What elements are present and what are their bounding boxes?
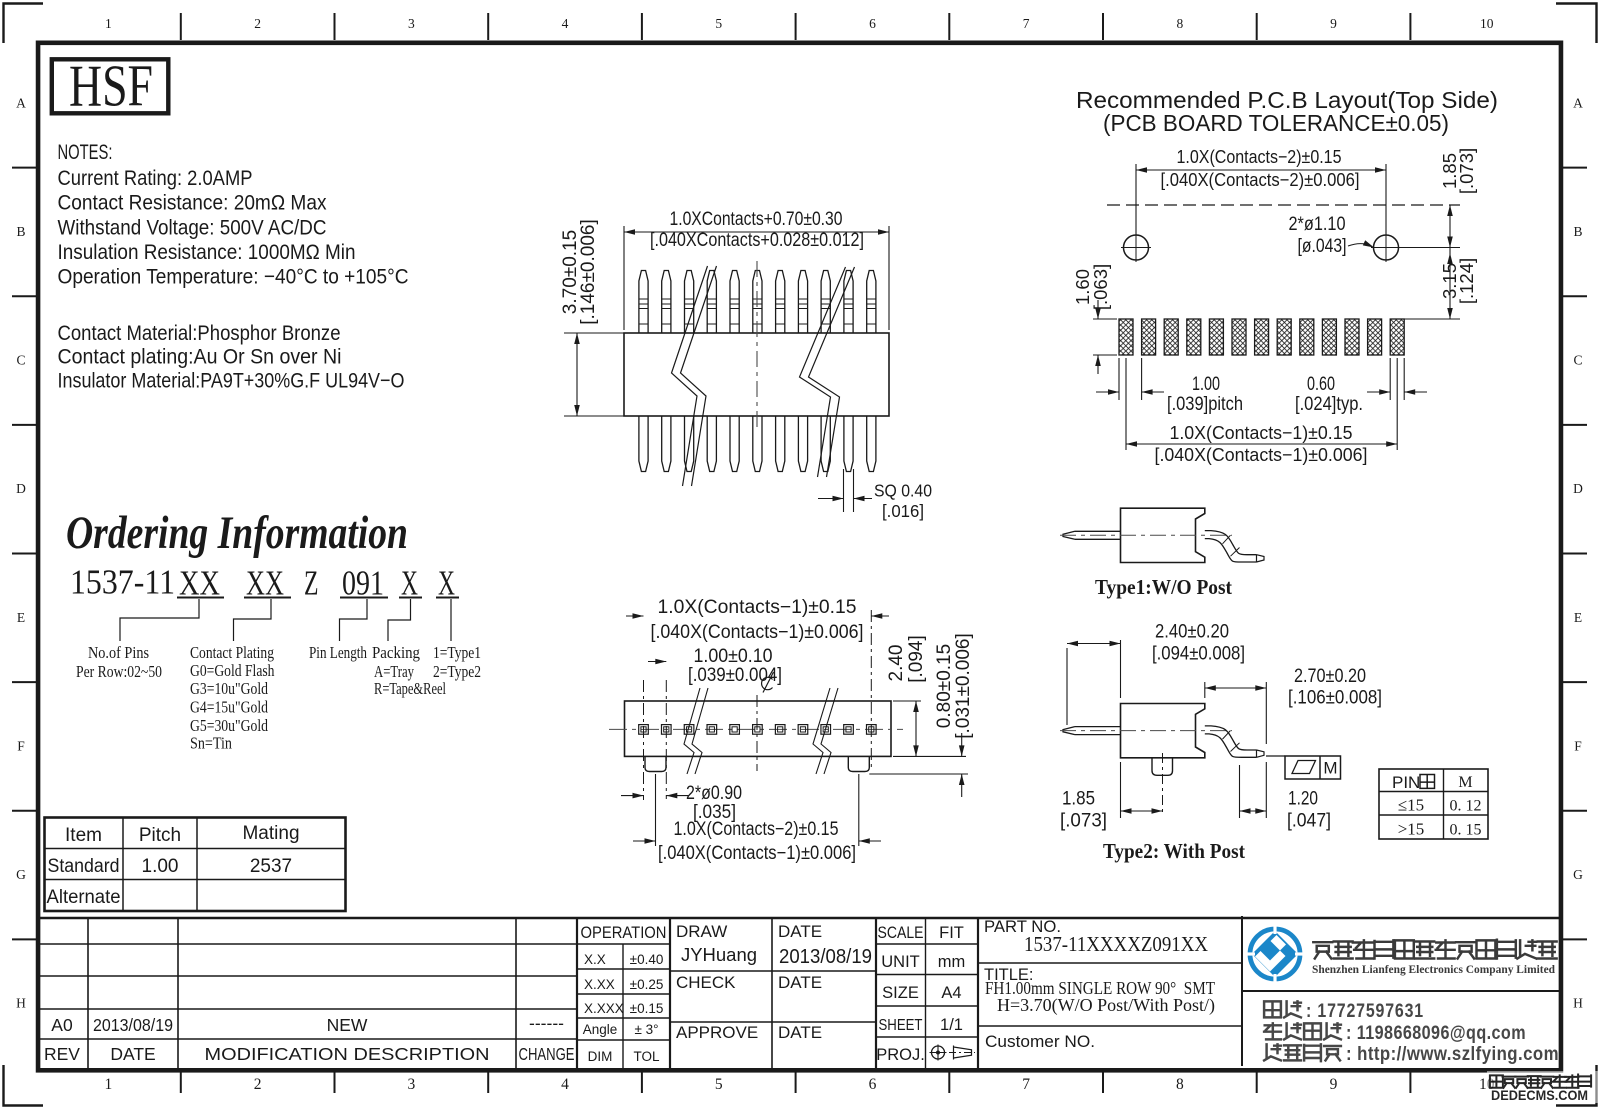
svg-text:>15: >15 [1398,820,1425,839]
svg-text:------: ------ [529,1013,564,1033]
svg-text:[.094±0.008]: [.094±0.008] [1152,644,1245,665]
svg-text:C: C [16,353,25,368]
contact: website [1264,1044,1281,1060]
svg-text:A: A [16,95,26,110]
svg-text:B: B [1573,224,1582,239]
svg-text:R=Tape&Reel: R=Tape&Reel [374,679,446,698]
svg-text:6: 6 [869,1076,877,1093]
svg-text:Standard: Standard [48,856,120,877]
svg-text:PIN: PIN [1392,773,1420,792]
svg-text:DATE: DATE [778,922,822,941]
bottom view: pad squares x11 [639,725,649,735]
svg-text:DATE: DATE [110,1044,155,1064]
svg-text:1537-11XXXXZ091XX: 1537-11XXXXZ091XX [1024,932,1208,956]
contact: email [1264,1023,1281,1039]
svg-text:G3=10u"Gold: G3=10u"Gold [190,679,269,698]
svg-text:DATE: DATE [778,973,822,992]
svg-text:REV: REV [44,1044,80,1064]
svg-text:8: 8 [1176,1076,1184,1093]
svg-text:2013/08/19: 2013/08/19 [93,1015,173,1035]
front view: top pins x11 [639,271,648,334]
svg-text:[.040X(Contacts−1)±0.006]: [.040X(Contacts−1)±0.006] [658,843,856,864]
svg-text:: 17727597631: : 17727597631 [1306,1001,1424,1022]
svg-text:DIM: DIM [588,1049,613,1064]
svg-text:1.85: 1.85 [1062,789,1095,810]
svg-text:[.073]: [.073] [1456,148,1477,194]
svg-text:M: M [1323,759,1337,778]
svg-text:1=Type1: 1=Type1 [433,643,481,662]
front view: connector body [624,333,889,416]
dim: pad height 1.60 [1093,318,1117,320]
pcb layout: dashed centerline [1107,204,1460,206]
svg-text:[.040XContacts+0.028±0.012]: [.040XContacts+0.028±0.012] [650,230,864,251]
svg-text:MODIFICATION DESCRIPTION: MODIFICATION DESCRIPTION [205,1044,490,1064]
svg-text:OPERATION: OPERATION [581,923,667,942]
svg-text:1.0XContacts+0.70±0.30: 1.0XContacts+0.70±0.30 [670,209,843,230]
svg-text:2.40±0.20: 2.40±0.20 [1155,622,1229,643]
svg-text:±0.15: ±0.15 [630,1001,664,1016]
svg-text:2*ø1.10: 2*ø1.10 [1289,214,1346,235]
svg-text:Contact Material:Phosphor Bron: Contact Material:Phosphor Bronze [58,321,341,345]
company logo: blue ring and diamond [1250,929,1300,979]
svg-text:SIZE: SIZE [882,984,919,1002]
svg-text:NEW: NEW [327,1015,368,1035]
pcb layout: mounting hole right [1374,235,1399,260]
pcb layout: pads row x13 crosshatched [1119,319,1133,355]
svg-text:: http://www.szlfying.com: : http://www.szlfying.com [1346,1044,1559,1065]
bottom view: reference dash-dot verticals [643,680,645,800]
svg-text:[.073]: [.073] [1060,811,1107,832]
bottom view: centerline symbol [763,672,774,693]
svg-text:0.80±0.15: 0.80±0.15 [934,644,955,728]
svg-text:mm: mm [938,953,966,971]
svg-text:2013/08/19: 2013/08/19 [779,946,872,968]
svg-text:(PCB BOARD TOLERANCE±0.05): (PCB BOARD TOLERANCE±0.05) [1103,110,1449,136]
front view: bottom pins x11 [639,416,648,472]
svg-text:±0.25: ±0.25 [630,977,664,992]
svg-text:NOTES:: NOTES: [58,140,113,164]
svg-text:7: 7 [1022,1076,1030,1093]
svg-text:4: 4 [562,16,569,31]
svg-text:Shenzhen Lianfeng Electronics: Shenzhen Lianfeng Electronics Company Li… [1312,964,1556,976]
svg-text:[.146±0.006]: [.146±0.006] [578,219,599,325]
svg-text:[.031±0.006]: [.031±0.006] [953,633,974,739]
svg-text:10: 10 [1480,16,1494,31]
dim: 1.20 foot length [1239,765,1241,818]
company chinese name [1313,942,1332,958]
svg-text:0. 12: 0. 12 [1450,798,1482,815]
svg-text:No.of Pins: No.of Pins [88,643,149,662]
svg-text:3: 3 [408,16,415,31]
svg-text:2=Type2: 2=Type2 [433,662,481,681]
svg-text:1.0X(Contacts−2)±0.15: 1.0X(Contacts−2)±0.15 [674,819,839,840]
svg-text:Pitch: Pitch [139,825,181,846]
dim: pitch 1.00 [1118,358,1120,400]
svg-text:1.0X(Contacts−2)±0.15: 1.0X(Contacts−2)±0.15 [1177,146,1342,167]
ruler ticks and zone letters left/right edges [12,167,37,169]
svg-text:B: B [16,224,25,239]
svg-text:1: 1 [105,1076,113,1093]
svg-text:1537-11: 1537-11 [70,563,175,602]
underlines under code fields [177,597,224,599]
dim: top 1.0X(Contacts-1) span [626,615,644,617]
bottom view: horizontal centerline [609,728,903,730]
svg-text:APPROVE: APPROVE [676,1023,758,1042]
svg-text:8: 8 [1176,16,1183,31]
svg-text:9: 9 [1330,1076,1338,1093]
svg-text:1.00±0.10: 1.00±0.10 [694,646,773,667]
svg-text:Mating: Mating [242,823,299,844]
bottom view: posts [645,756,666,771]
svg-text:G4=15u"Gold: G4=15u"Gold [190,698,269,717]
type2 header side view (with post) [1060,704,1264,758]
svg-text:Customer NO.: Customer NO. [985,1032,1095,1051]
svg-text:[.106±0.008]: [.106±0.008] [1288,688,1382,709]
svg-text:[.016]: [.016] [882,501,924,521]
dim: hole span 1.0X(Contacts-2) [1135,164,1137,235]
svg-text:[.124]: [.124] [1456,258,1477,304]
svg-text:: 1198668096@qq.com: : 1198668096@qq.com [1346,1023,1526,1044]
ruler ticks and zone numbers top edge [180,13,182,40]
svg-text:A0: A0 [51,1015,73,1035]
sheet corner trim marks [4,4,44,44]
svg-text:F: F [17,738,25,753]
svg-text:4: 4 [561,1076,569,1093]
svg-text:1: 1 [105,16,112,31]
dim: SQ 0.40 pin size [843,469,845,512]
svg-text:1/1: 1/1 [940,1016,963,1034]
HSF company logo box [52,59,169,113]
front view: break lines left [672,266,708,486]
dedecms watermark [1487,1071,1600,1103]
svg-text:Contact Plating: Contact Plating [190,643,274,662]
svg-text:Contact Resistance: 20mΩ Max: Contact Resistance: 20mΩ Max [58,191,327,215]
svg-text:Ordering Information: Ordering Information [66,507,408,559]
svg-text:1.0X(Contacts−1)±0.15: 1.0X(Contacts−1)±0.15 [1170,422,1353,443]
dim: 1.85 hole to centerline [1392,247,1460,249]
svg-text:Type1:W/O Post: Type1:W/O Post [1095,575,1233,599]
svg-text:Sn=Tin: Sn=Tin [190,734,232,753]
svg-text:0.60: 0.60 [1307,374,1335,395]
svg-text:Pin Length: Pin Length [309,643,368,662]
svg-text:±0.40: ±0.40 [630,952,664,967]
svg-text:Insulator Material:PA9T+30%G.F: Insulator Material:PA9T+30%G.F UL94V−O [58,369,405,393]
svg-text:Z: Z [304,564,319,603]
svg-text:2537: 2537 [250,856,292,877]
pcb layout: mounting hole left [1124,235,1149,260]
dim: pad span 1.0X(Contacts-1) [1125,358,1127,450]
svg-text:Current Rating: 2.0AMP: Current Rating: 2.0AMP [58,166,253,190]
svg-text:1.00: 1.00 [142,856,179,877]
svg-text:Insulation Resistance: 1000MΩ: Insulation Resistance: 1000MΩ Min [58,240,356,264]
dim: 2.70 body to lead tip [1204,682,1206,698]
svg-text:G0=Gold Flash: G0=Gold Flash [190,661,275,680]
svg-text:Per Row:02~50: Per Row:02~50 [76,662,162,681]
svg-text:1.0X(Contacts−1)±0.15: 1.0X(Contacts−1)±0.15 [658,597,857,618]
flatness feature control frame [1285,756,1341,779]
dim: 3.15 hole to pads [1404,318,1460,320]
svg-text:2.70±0.20: 2.70±0.20 [1294,666,1366,687]
svg-text:[.047]: [.047] [1287,811,1331,832]
svg-text:G5=30u"Gold: G5=30u"Gold [190,716,269,735]
svg-text:HSF: HSF [69,53,153,119]
dim: pitch 1.00+-0.10 [648,661,666,663]
svg-text:Withstand Voltage: 500V AC/DC: Withstand Voltage: 500V AC/DC [58,216,327,240]
dim: post span 1.0X(Contacts-2) [655,774,657,846]
dim: post dia 2*0.90 [621,795,644,797]
dim: 1.85 body to post [1120,762,1122,818]
svg-text:2*ø0.90: 2*ø0.90 [686,783,742,804]
svg-text:Item: Item [65,825,102,846]
svg-text:SHEET: SHEET [879,1017,923,1034]
svg-text:± 3°: ± 3° [634,1022,658,1037]
svg-text:Operation Temperature: −40°C t: Operation Temperature: −40°C to +105°C [58,265,409,289]
svg-text:FIT: FIT [939,924,964,942]
dim: post height 0.80 right [893,755,966,757]
svg-text:[.040X(Contacts−1)±0.006]: [.040X(Contacts−1)±0.006] [1155,444,1368,465]
svg-text:UNIT: UNIT [881,953,920,971]
svg-text:Type2: With Post: Type2: With Post [1103,839,1246,863]
svg-text:M: M [1458,774,1472,791]
svg-text:9: 9 [1330,16,1337,31]
svg-text:DATE: DATE [778,1023,822,1042]
svg-text:DRAW: DRAW [676,922,727,941]
svg-text:[.040X(Contacts−1)±0.006]: [.040X(Contacts−1)±0.006] [651,622,864,643]
dim: 2.40 pin tip to body [1066,648,1068,725]
front view: vertical centerline [756,261,758,430]
svg-text:0. 15: 0. 15 [1450,822,1482,839]
svg-text:5: 5 [715,16,722,31]
svg-text:Angle: Angle [583,1022,618,1037]
svg-text:F: F [1574,738,1582,753]
svg-text:H: H [1573,996,1583,1011]
svg-text:Alternate: Alternate [47,887,121,908]
svg-text:≤15: ≤15 [1398,796,1424,815]
svg-text:CHECK: CHECK [676,973,736,992]
svg-text:6: 6 [869,16,876,31]
svg-text:Packing: Packing [372,643,420,662]
svg-text:Contact plating:Au Or Sn over: Contact plating:Au Or Sn over Ni [58,345,342,369]
svg-text:A: A [1573,95,1583,110]
svg-text:SCALE: SCALE [878,924,924,942]
svg-text:G: G [16,867,26,882]
svg-text:[.039]pitch: [.039]pitch [1167,394,1243,415]
svg-text:[.024]typ.: [.024]typ. [1295,394,1363,415]
svg-text:[.094]: [.094] [906,635,927,683]
svg-text:X.XXX: X.XXX [584,1001,624,1016]
svg-text:A4: A4 [941,984,961,1002]
svg-text:DEDECMS.COM: DEDECMS.COM [1491,1088,1588,1103]
svg-text:X.X: X.X [584,952,606,967]
svg-text:X.XX: X.XX [584,977,615,992]
item pitch mating table [45,818,346,912]
dim: pad width 0.60 typ [1389,358,1391,400]
svg-text:1.00: 1.00 [1192,374,1220,395]
svg-text:2.40: 2.40 [886,645,907,682]
contact: mobile [1264,1001,1281,1017]
svg-text:5: 5 [715,1076,723,1093]
svg-text:7: 7 [1023,16,1030,31]
front view: break lines right [800,267,846,477]
svg-text:E: E [1574,610,1582,625]
svg-text:E: E [17,610,25,625]
svg-text:[.040X(Contacts−2)±0.006]: [.040X(Contacts−2)±0.006] [1161,169,1360,190]
dim: body height 2.40 right [893,700,921,702]
company logo block divider [1242,990,1563,992]
title block grid [36,917,1563,920]
svg-text:[ø.043]: [ø.043] [1298,236,1347,257]
type2: post [1152,758,1173,776]
svg-text:TOL: TOL [633,1049,660,1064]
svg-text:JYHuang: JYHuang [681,944,757,965]
svg-text:CHANGE: CHANGE [519,1044,575,1064]
svg-text:2: 2 [254,16,261,31]
svg-text:1.20: 1.20 [1288,789,1318,810]
svg-text:PROJ.: PROJ. [876,1046,925,1064]
svg-text:H=3.70(W/O Post/With Post/): H=3.70(W/O Post/With Post/) [997,995,1215,1015]
svg-text:D: D [1573,481,1583,496]
type1 header side view (no post) [1060,508,1264,562]
svg-text:3: 3 [407,1076,415,1093]
svg-text:2: 2 [254,1076,262,1093]
svg-text:SQ 0.40: SQ 0.40 [874,481,932,501]
dim: height 3.70 [564,332,624,334]
svg-text:[.063]: [.063] [1090,264,1111,310]
svg-text:[.039±0.004]: [.039±0.004] [688,665,782,686]
type2: seating plane leader to datum frame [1266,755,1285,757]
bottom view: break lines [684,688,700,774]
leader lines to field labels [120,599,199,641]
projection symbol [932,1046,945,1059]
svg-text:D: D [16,481,26,496]
svg-text:H: H [16,996,26,1011]
bottom view: body outline [625,701,892,756]
svg-text:G: G [1573,867,1583,882]
dim: width 1.0XContacts+0.70 [623,226,625,330]
svg-text:C: C [1573,353,1582,368]
pin count vs M table [1379,769,1488,839]
